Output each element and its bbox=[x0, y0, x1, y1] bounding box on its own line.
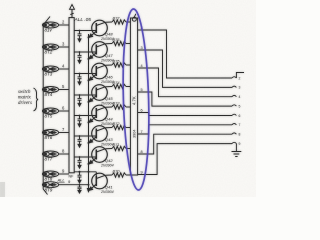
scan noise overlay bbox=[0, 0, 256, 197]
